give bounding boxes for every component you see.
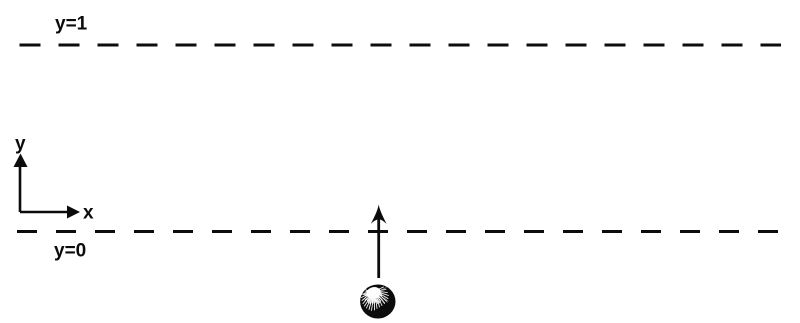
svg-text:x: x — [83, 203, 94, 224]
ball — [360, 285, 395, 319]
dashed line y=0 — [17, 230, 781, 233]
dashed line y=1 — [20, 44, 782, 47]
svg-text:y=1: y=1 — [55, 14, 88, 35]
svg-text:y: y — [15, 134, 26, 155]
velocity arrow — [371, 205, 387, 279]
coordinate axes — [14, 154, 81, 219]
svg-text:y=0: y=0 — [54, 241, 86, 262]
